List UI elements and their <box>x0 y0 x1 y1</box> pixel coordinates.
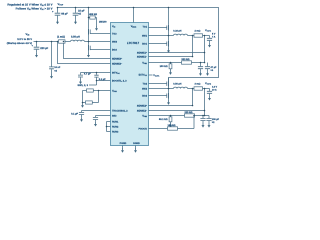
transistor Q3A boost top NMOS <box>89 8 111 42</box>
svg-text:3.3 V: 3.3 V <box>212 85 218 88</box>
svg-text:4.7 µF: 4.7 µF <box>84 72 91 75</box>
svg-text:0.1 µF: 0.1 µF <box>99 78 106 81</box>
capacitor C13 VOUT2 bulk a <box>200 116 205 128</box>
svg-text:EXTVCC: EXTVCC <box>139 73 148 76</box>
svg-text:10 nF: 10 nF <box>54 66 61 69</box>
resistor R11 100k PGOOD pullup <box>149 116 195 131</box>
svg-text:TG1: TG1 <box>143 25 148 28</box>
svg-text:VIN: VIN <box>26 33 30 37</box>
svg-text:68.1 kΩ: 68.1 kΩ <box>159 118 168 121</box>
transistor Q2A buck2 top NMOS <box>149 78 169 89</box>
svg-text:215 kΩ: 215 kΩ <box>185 111 193 114</box>
resistor R1 499k divider <box>89 13 108 31</box>
svg-text:SENSE2−: SENSE2− <box>137 109 147 112</box>
ground buck1 bottom FET <box>167 48 170 53</box>
resistor R2 sense 1mOhm <box>57 35 65 43</box>
wire: L1 to sense <box>188 35 195 37</box>
svg-text:1M/100: 1M/100 <box>99 20 107 23</box>
svg-text:0.1 µF: 0.1 µF <box>71 113 78 116</box>
svg-text:100 kΩ: 100 kΩ <box>160 65 168 68</box>
node VOUT1 label <box>205 29 216 39</box>
svg-text:47 µF: 47 µF <box>211 66 218 69</box>
pin labels left <box>112 25 128 133</box>
svg-text:VFB1: VFB1 <box>142 61 147 64</box>
svg-text:VTOP: VTOP <box>58 3 64 7</box>
svg-text:RUN1: RUN1 <box>112 120 119 123</box>
svg-text:SENSE2+: SENSE2+ <box>137 104 147 107</box>
svg-text:VFB2: VFB2 <box>142 114 147 117</box>
svg-text:(Startup Above 4.5 V): (Startup Above 4.5 V) <box>7 42 32 45</box>
svg-text:TG2: TG2 <box>143 82 148 85</box>
svg-text:PGND: PGND <box>120 142 127 145</box>
transistor Q2B buck2 bottom NMOS <box>149 89 169 101</box>
resistor R4 VFB3 divider bottom <box>81 91 99 108</box>
svg-text:RUN3: RUN3 <box>112 130 119 133</box>
capacitor C10 VOUT1 bulk a <box>198 63 203 76</box>
svg-text:SW3: SW3 <box>112 40 118 43</box>
wire: VBIAS to rail <box>133 8 135 23</box>
wire: SW3 node <box>89 41 111 43</box>
pin labels right <box>137 25 148 130</box>
svg-text:SW2: SW2 <box>142 87 148 90</box>
transistor Q1A buck1 top NMOS <box>149 8 169 36</box>
svg-text:SW1: SW1 <box>142 34 148 37</box>
wire: SENSE2- <box>149 89 205 116</box>
wire: RUN bus <box>107 122 111 132</box>
wire: INTVCC <box>81 72 111 74</box>
ground boost bottom FET <box>87 53 90 58</box>
wire: SENSE1- <box>149 36 193 57</box>
svg-text:499 kΩ: 499 kΩ <box>89 13 97 16</box>
capacitor C11 VOUT1 bulk b <box>205 63 218 76</box>
resistor R8 3mOhm sense2 <box>194 82 210 90</box>
svg-text:BG3: BG3 <box>112 48 117 51</box>
wire: L2 to sense <box>188 88 195 90</box>
capacitor C1 68uF <box>52 8 68 25</box>
resistor R3 VFB3 divider top <box>83 89 111 92</box>
capacitor C12 VOUT2 cap <box>207 89 212 101</box>
capacitor C7 soft-start TRACK/SS <box>71 111 110 122</box>
wire: VTOP top rail <box>58 8 219 82</box>
transistor Q1B buck1 bottom NMOS <box>149 36 169 49</box>
ground PGND <box>121 146 124 153</box>
node VOUT2 label <box>205 82 218 92</box>
svg-text:Follows VIN When VIN > 10 V: Follows VIN When VIN > 10 V <box>16 7 53 12</box>
svg-text:100 µF: 100 µF <box>212 118 220 121</box>
capacitor C3 220uF input <box>32 42 49 58</box>
resistor R5 2mOhm sense1 <box>194 29 210 37</box>
svg-text:PGOOD: PGOOD <box>138 127 147 130</box>
inductor L2 0.56uH <box>173 82 187 88</box>
wire: SENSE1+ <box>149 36 205 63</box>
pin labels top and bottom <box>120 25 140 145</box>
resistor R7 523k FB1 top <box>182 58 205 64</box>
svg-text:BOOST1, 2, 3: BOOST1, 2, 3 <box>112 79 127 82</box>
ground buck2 bottom FET <box>167 100 170 105</box>
capacitor C2 10uF <box>73 8 85 25</box>
svg-text:100 kΩ: 100 kΩ <box>168 124 176 127</box>
capacitor C6 0.1uF boost caps <box>89 73 111 86</box>
svg-text:0.56 µH: 0.56 µH <box>173 82 181 85</box>
svg-text:SGND: SGND <box>133 142 140 145</box>
svg-text:VBIAS: VBIAS <box>131 25 137 28</box>
capacitor C9 VOUT1 cap <box>207 36 212 48</box>
svg-text:SENSE3−: SENSE3− <box>112 62 122 65</box>
svg-text:INTVCC: INTVCC <box>112 71 120 74</box>
wire: SENSE2+ <box>149 89 193 106</box>
svg-text:SW1, 2, 3: SW1, 2, 3 <box>78 84 89 87</box>
svg-text:5 V: 5 V <box>212 32 216 35</box>
resistor R10 215k FB2 top <box>185 111 205 117</box>
svg-text:SENSE1+: SENSE1+ <box>137 51 147 54</box>
capacitor C8 soft-start SS3 <box>93 116 111 127</box>
transistor Q3B boost bottom NMOS <box>89 42 111 54</box>
svg-text:BG1: BG1 <box>142 42 147 45</box>
svg-text:SENSE3+: SENSE3+ <box>112 57 122 60</box>
ground SGND <box>134 146 137 153</box>
svg-text:7 A: 7 A <box>212 36 216 39</box>
capacitor C4 sense filter 1nF <box>49 42 61 79</box>
svg-text:0.56 µH: 0.56 µH <box>71 35 80 38</box>
capacitor C5 4.7uF INTVCC <box>78 72 91 84</box>
wire: SW1 node <box>149 35 174 37</box>
svg-text:TG3: TG3 <box>112 32 117 35</box>
svg-text:0.33 µH: 0.33 µH <box>173 29 181 32</box>
svg-text:220 µF: 220 µF <box>40 47 48 50</box>
wire: SENSE3+ line <box>64 43 111 58</box>
svg-text:VFB3: VFB3 <box>112 89 117 92</box>
resistor R6 100k FB1 low <box>149 63 182 75</box>
svg-text:SENSE1−: SENSE1− <box>137 55 147 58</box>
op-amp U1 LTC7817 controller <box>111 23 149 146</box>
node VTOP label <box>58 3 64 7</box>
annotation: regulation note <box>7 3 52 12</box>
resistor R9 68.1k FB2 low <box>149 116 185 128</box>
svg-text:RUN2: RUN2 <box>112 125 119 128</box>
svg-text:TRACK/SS1, 2: TRACK/SS1, 2 <box>112 109 128 112</box>
wire junction dots <box>36 7 206 128</box>
wire: VIN input rail <box>34 41 89 43</box>
svg-text:2 mΩ: 2 mΩ <box>195 29 201 32</box>
node SW123 label <box>78 84 89 87</box>
inductor L1 0.33uH <box>173 29 187 35</box>
svg-text:3.3 V to 38 V: 3.3 V to 38 V <box>17 38 32 41</box>
svg-text:VOUT2: VOUT2 <box>205 82 211 85</box>
svg-text:VOUT1: VOUT1 <box>153 74 159 77</box>
wire: SW2 node <box>149 88 174 90</box>
svg-text:3 mΩ: 3 mΩ <box>195 82 201 85</box>
node EXTVCC VOUT1 ref <box>149 74 160 77</box>
svg-text:BG2: BG2 <box>142 94 147 97</box>
wire: SENSE3- line <box>58 42 111 64</box>
node VIN label <box>7 33 33 45</box>
capacitor C14 VOUT2 bulk b <box>205 116 220 128</box>
svg-text:SS3: SS3 <box>112 114 117 117</box>
inductor L3 boost <box>71 35 85 41</box>
svg-text:68 µF: 68 µF <box>61 13 68 16</box>
svg-text:LTC7817: LTC7817 <box>127 41 140 45</box>
svg-text:523 kΩ: 523 kΩ <box>182 58 190 61</box>
svg-text:VOUT1: VOUT1 <box>205 29 211 32</box>
svg-text:(1 mΩ): (1 mΩ) <box>57 35 65 38</box>
svg-text:10 A: 10 A <box>212 89 217 92</box>
